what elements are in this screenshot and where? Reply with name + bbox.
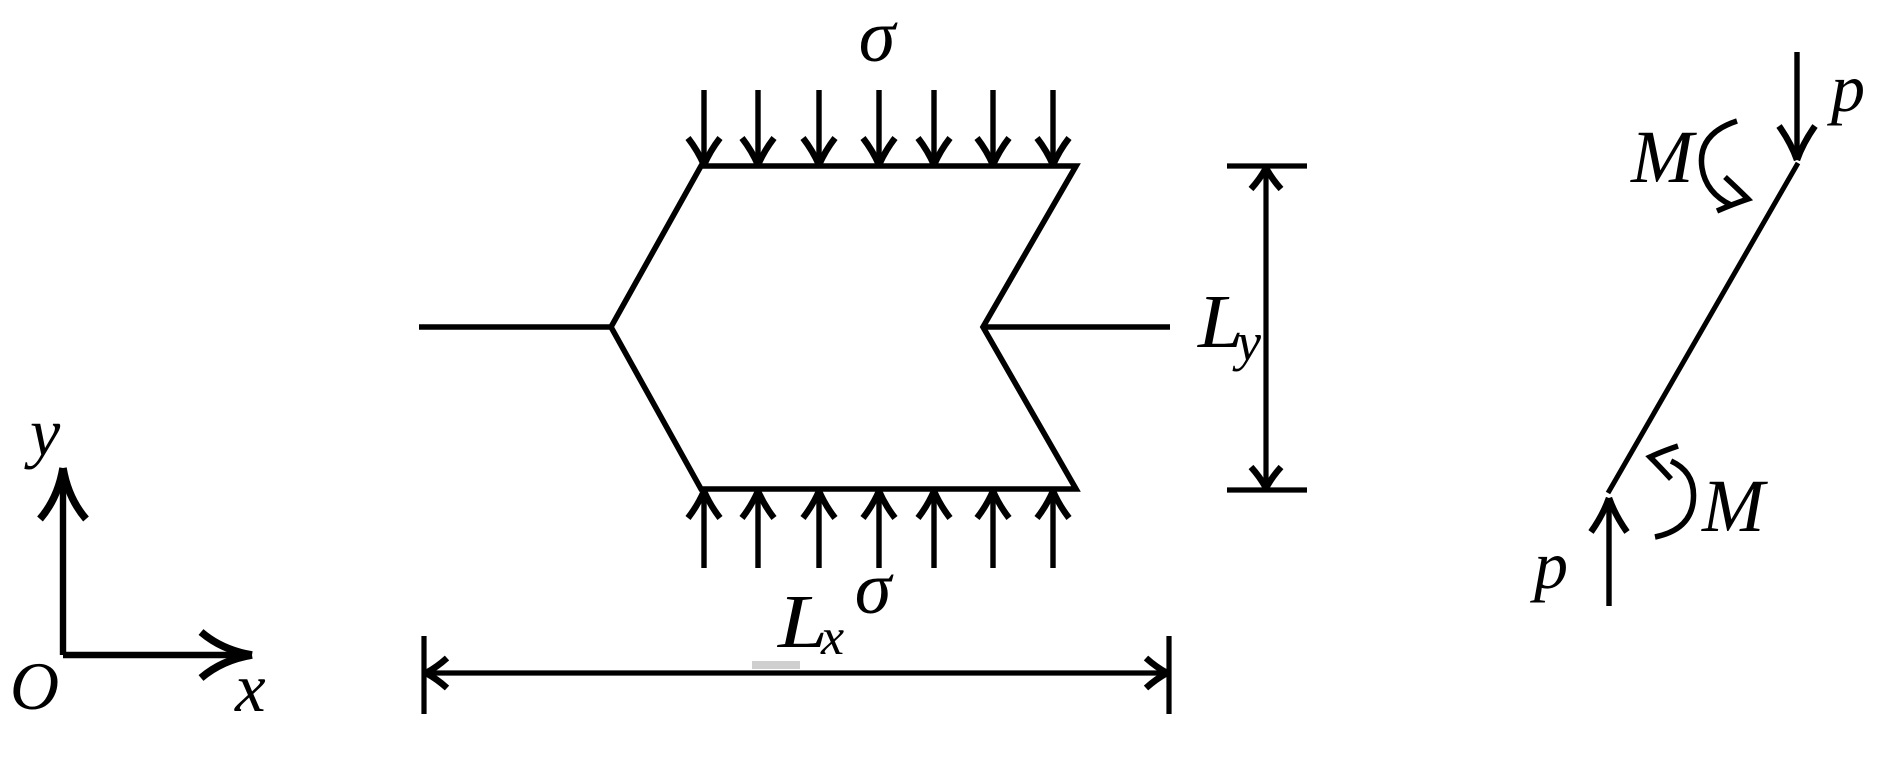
Lx label: [777, 579, 844, 666]
bottom force arrow p: [1591, 498, 1627, 606]
bottom moment arc: [1655, 461, 1694, 537]
svg-text:y: y: [24, 394, 61, 470]
plate outline (chevron hexagon): [611, 166, 1076, 489]
bottom stress arrow 1: [688, 491, 720, 568]
top moment arrowhead: [1717, 177, 1748, 211]
svg-text:p: p: [1827, 50, 1865, 126]
svg-text:y: y: [1232, 312, 1261, 372]
Ly bottom extension tick: [1227, 487, 1307, 492]
top stress arrow 7: [1037, 90, 1069, 165]
top stress arrow 3: [803, 90, 835, 165]
y-axis: [40, 468, 86, 655]
bottom stress arrow 2: [742, 491, 774, 568]
left crack line: [419, 324, 611, 330]
svg-text:x: x: [820, 609, 844, 666]
bottom stress arrow 7: [1037, 491, 1069, 568]
Ly bottom arrowhead: [1251, 467, 1281, 488]
Lx right arrowhead: [1146, 658, 1167, 688]
bottom stress arrow 4: [863, 491, 895, 568]
svg-text:M: M: [1630, 116, 1697, 199]
svg-text:σ: σ: [859, 0, 898, 78]
Lx right extension tick: [1166, 636, 1171, 714]
top stress arrow 5: [918, 90, 950, 165]
top stress arrow 1: [688, 90, 720, 165]
x-axis: [63, 632, 252, 678]
Lx left arrowhead: [426, 658, 447, 688]
bottom stress arrow 6: [977, 491, 1009, 568]
Lx left extension tick: [421, 636, 426, 714]
svg-text:M: M: [1701, 465, 1768, 548]
top stress arrow 4: [863, 90, 895, 165]
svg-text:p: p: [1530, 527, 1568, 603]
top stress arrow 6: [977, 90, 1009, 165]
Lx dimension line: [424, 670, 1169, 675]
bottom stress arrow 5: [918, 491, 950, 568]
top stress arrow 2: [742, 90, 774, 165]
svg-text:O: O: [10, 648, 59, 724]
Ly top arrowhead: [1251, 168, 1281, 189]
Ly label: [1197, 281, 1261, 372]
top force arrow p: [1779, 52, 1815, 160]
bottom stress arrow 3: [803, 491, 835, 568]
erased smudge under Lx: [752, 661, 800, 669]
top moment arc: [1701, 121, 1737, 205]
bottom moment arrowhead: [1650, 446, 1678, 479]
svg-text:x: x: [234, 650, 266, 726]
inclined bar: [1608, 163, 1798, 493]
right crack line: [983, 324, 1170, 330]
Ly dimension line: [1263, 166, 1268, 490]
svg-text:σ: σ: [855, 548, 894, 630]
Ly top extension tick: [1227, 163, 1307, 168]
